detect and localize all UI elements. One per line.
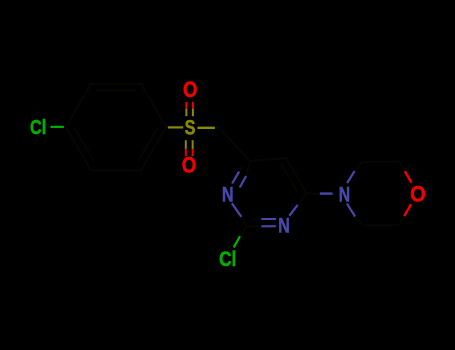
bond S-CH2 olive [197, 127, 215, 129]
S=O bottom double bond [186, 140, 193, 156]
svg-text:O: O [410, 181, 426, 206]
svg-text:O: O [182, 153, 197, 178]
morpholine blue bonds from N [347, 171, 355, 217]
pyrimidine dark carbon bonds [239, 158, 320, 236]
benzene ring C6H4 (dark carbon skeleton) [66, 84, 166, 171]
svg-text:Cl: Cl [219, 247, 236, 271]
C6=N1 double bond blue [232, 172, 246, 188]
svg-text:S: S [185, 114, 196, 139]
CH2 linker dark bonds [215, 128, 250, 161]
morpholine O-adjacent red bonds [404, 171, 411, 216]
morpholine dark carbon bonds [355, 162, 405, 225]
svg-text:N: N [339, 183, 351, 207]
bond C4-N(morpholine) blue [320, 192, 333, 194]
bond N3-C4 blue [289, 205, 297, 216]
S=O top double bond [186, 102, 193, 116]
bond Cl-C(aryl) green [51, 126, 64, 128]
svg-text:O: O [183, 77, 197, 102]
svg-text:Cl: Cl [30, 116, 46, 139]
svg-text:N: N [222, 183, 234, 207]
bond C(aryl)-S olive [168, 126, 183, 128]
bond N1-C2 blue [232, 203, 242, 217]
C2=N3 double bond blue [261, 219, 276, 226]
bond C2-Cl green [234, 236, 240, 247]
svg-text:N: N [278, 213, 290, 237]
